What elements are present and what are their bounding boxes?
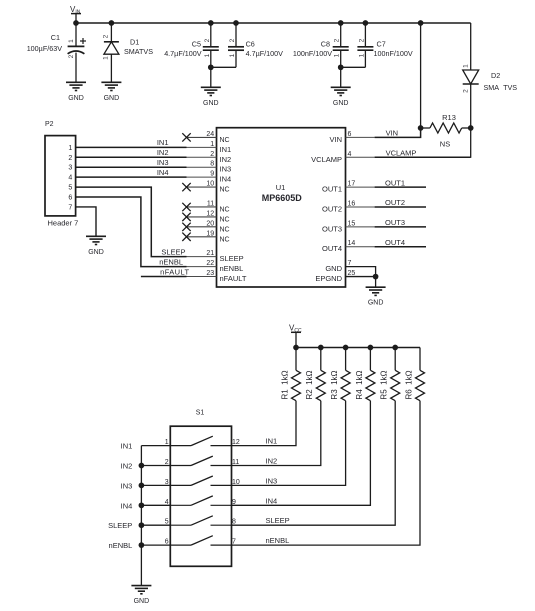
pin 11 NC (no connect) [182, 200, 229, 213]
op-amp / driver IC U1 MP6605D [217, 128, 346, 287]
svg-text:OUT2: OUT2 [322, 204, 342, 213]
svg-text:GND: GND [134, 598, 150, 605]
svg-text:OUT4: OUT4 [322, 244, 342, 253]
svg-text:2: 2 [210, 151, 214, 158]
junction C8/C7 bottom [338, 64, 344, 70]
svg-text:IN1: IN1 [266, 437, 278, 446]
svg-text:IN4: IN4 [157, 168, 169, 177]
svg-text:GND: GND [68, 95, 84, 102]
svg-text:IN4: IN4 [220, 175, 232, 184]
svg-text:IN2: IN2 [157, 148, 169, 157]
svg-text:IN3: IN3 [266, 476, 278, 485]
wire S1 pin 10 to R3 (IN3) [232, 401, 346, 486]
svg-text:21: 21 [206, 250, 214, 257]
svg-text:1: 1 [334, 53, 341, 57]
svg-text:2: 2 [204, 38, 211, 42]
svg-text:C8: C8 [321, 40, 330, 49]
svg-text:nFAULT: nFAULT [160, 267, 189, 276]
wire net SLEEP (P2.5 to U1.21) [76, 187, 187, 257]
svg-text:100nF/100V: 100nF/100V [293, 49, 332, 58]
svg-text:NC: NC [220, 216, 230, 223]
switch S1 element 6 (pins 6/7) [165, 536, 236, 546]
svg-text:24: 24 [206, 131, 214, 138]
wire S1 left pin 1 [141, 445, 170, 447]
wire U1.25 EPGND to node [346, 276, 376, 278]
svg-text:EPGND: EPGND [315, 274, 342, 283]
svg-text:GND: GND [325, 264, 342, 273]
svg-text:SLEEP: SLEEP [108, 521, 132, 530]
svg-text:GND: GND [104, 95, 120, 102]
junction VIN rail / C6 [233, 20, 239, 26]
svg-text:NC: NC [220, 187, 230, 194]
ground under C1 [66, 82, 86, 102]
junction VIN rail / C7 [363, 20, 369, 26]
svg-text:SMATVS: SMATVS [124, 47, 153, 56]
svg-text:1: 1 [68, 39, 75, 43]
diode D1 SMATVS [102, 23, 153, 82]
ground under U1 [366, 287, 386, 307]
junction VIN rail / drop to R13 [418, 20, 424, 26]
wire VIN rail [76, 22, 471, 24]
junction VCC rail / R2 [318, 345, 324, 351]
wire net IN1 (P2.1 to U1.1) [76, 146, 187, 148]
svg-text:VCLAMP: VCLAMP [386, 148, 417, 157]
svg-text:1: 1 [68, 145, 72, 152]
svg-text:IN3: IN3 [220, 165, 232, 174]
capacitor C6 4.7uF/100V [228, 23, 283, 67]
svg-text:IN2: IN2 [121, 462, 133, 471]
resistor R4 1kOhm [355, 348, 375, 401]
svg-text:C5: C5 [192, 40, 201, 49]
switch S1 (6x DIP) [170, 426, 231, 566]
svg-text:R1 1kΩ: R1 1kΩ [280, 370, 289, 399]
svg-text:NC: NC [220, 137, 230, 144]
svg-text:10: 10 [206, 181, 214, 188]
switch S1 element 3 (pins 3/10) [165, 476, 240, 486]
wire net OUT2 [346, 206, 375, 208]
wire VCC rail [296, 347, 420, 349]
svg-text:4: 4 [68, 175, 72, 182]
pin 19 NC (no connect) [182, 230, 229, 243]
wire net VCLAMP (U1.4 to D2/R13 node) [346, 156, 375, 158]
svg-text:R5 1kΩ: R5 1kΩ [380, 370, 389, 399]
wire node to ground [375, 277, 377, 288]
svg-text:2: 2 [358, 38, 365, 42]
wire input bus to ground [140, 446, 142, 586]
svg-text:D1: D1 [130, 38, 139, 47]
power flag VIN [70, 5, 81, 23]
svg-text:12: 12 [206, 210, 214, 217]
resistor R13 NS [421, 113, 471, 149]
svg-text:1: 1 [210, 141, 214, 148]
svg-text:Header 7: Header 7 [48, 219, 79, 228]
pin 12 NC (no connect) [182, 210, 229, 223]
power flag VCC [289, 324, 302, 348]
svg-text:6: 6 [68, 195, 72, 202]
svg-text:OUT4: OUT4 [385, 238, 405, 247]
svg-text:22: 22 [206, 260, 214, 267]
junction VIN rail / C1 [73, 20, 79, 26]
svg-text:19: 19 [206, 230, 214, 237]
wire U1.7 GND to node [346, 267, 376, 277]
svg-text:15: 15 [348, 220, 356, 227]
svg-text:1: 1 [204, 53, 211, 57]
resistor R2 1kOhm [305, 348, 325, 401]
svg-text:VIN: VIN [329, 135, 342, 144]
wire net IN2 (P2.2 to U1.2) [76, 156, 187, 158]
svg-text:IN3: IN3 [121, 481, 133, 490]
junction VIN rail / C5 [208, 20, 214, 26]
svg-text:SMA TVS: SMA TVS [484, 83, 518, 92]
junction bus row 3 [139, 483, 145, 489]
svg-text:GND: GND [368, 300, 384, 307]
junction C5/C6 bottom [208, 64, 214, 70]
wire net IN4 (P2.4 to U1.9) [76, 176, 187, 178]
switch S1 element 5 (pins 5/8) [165, 516, 236, 526]
svg-text:16: 16 [348, 200, 356, 207]
svg-text:2: 2 [102, 34, 109, 38]
svg-text:OUT1: OUT1 [322, 185, 342, 194]
wire net OUT4 [346, 246, 375, 248]
junction R13 left / VIN [418, 125, 424, 131]
switch S1 element 4 (pins 4/9) [165, 496, 236, 506]
svg-text:VCLAMP: VCLAMP [311, 155, 342, 164]
resistor R1 1kOhm [280, 348, 300, 401]
wire C6 to C5 bottom [211, 66, 236, 68]
svg-text:11: 11 [207, 200, 214, 207]
svg-text:8: 8 [210, 161, 214, 168]
junction VCC rail / R4 [368, 345, 374, 351]
junction VCC rail / R1 [293, 345, 299, 351]
svg-text:nENBL: nENBL [220, 264, 244, 273]
svg-text:2: 2 [334, 38, 341, 42]
svg-text:6: 6 [348, 131, 352, 138]
wire S1 pin 12 to R1 (IN1) [232, 401, 297, 446]
wire C8 bottom to ground [340, 67, 342, 87]
svg-text:IN4: IN4 [121, 501, 133, 510]
svg-text:100µF/63V: 100µF/63V [27, 44, 63, 53]
svg-text:100nF/100V: 100nF/100V [374, 49, 413, 58]
svg-text:NC: NC [220, 236, 230, 243]
svg-text:4.7µF/100V: 4.7µF/100V [246, 49, 284, 58]
svg-text:IN3: IN3 [157, 158, 169, 167]
wire net nENBL (P2.6 to U1.22) [76, 197, 187, 267]
svg-text:MP6605D: MP6605D [262, 193, 303, 203]
wire S1 pin 8 to R5 (SLEEP) [232, 401, 396, 526]
capacitor C7 100nF/100V [357, 23, 412, 67]
junction bus row 6 [139, 542, 145, 548]
svg-text:nENBL: nENBL [266, 536, 290, 545]
pin 20 NC (no connect) [182, 220, 229, 233]
svg-text:R2 1kΩ: R2 1kΩ [305, 370, 314, 399]
svg-text:IN2: IN2 [220, 155, 232, 164]
svg-text:C1: C1 [51, 33, 60, 42]
wire C7 to C8 bottom [341, 66, 366, 68]
wire S1 left pin 2 [141, 465, 170, 467]
switch S1 element 2 (pins 2/11) [165, 456, 240, 466]
resistor R5 1kOhm [380, 348, 400, 401]
svg-text:4.7µF/100V: 4.7µF/100V [164, 49, 202, 58]
resistor R3 1kOhm [330, 348, 350, 401]
connector P2 Header 7 [45, 136, 76, 216]
junction bus row 5 [139, 522, 145, 528]
svg-text:GND: GND [88, 249, 104, 256]
wire S1 pin 7 to R6 (nENBL) [232, 401, 421, 545]
svg-text:OUT3: OUT3 [322, 224, 342, 233]
svg-text:NC: NC [220, 206, 230, 213]
svg-text:R4 1kΩ: R4 1kΩ [355, 370, 364, 399]
capacitor C8 100nF/100V [293, 23, 349, 67]
svg-text:C7: C7 [377, 40, 386, 49]
svg-text:IN1: IN1 [157, 138, 169, 147]
svg-text:2: 2 [462, 89, 469, 93]
svg-text:2: 2 [68, 155, 72, 162]
svg-text:1: 1 [102, 56, 109, 60]
svg-text:1: 1 [462, 64, 469, 68]
svg-text:P2: P2 [45, 121, 54, 128]
svg-text:SLEEP: SLEEP [266, 516, 290, 525]
svg-text:D2: D2 [491, 71, 500, 80]
capacitor C1 100uF/63V [27, 23, 86, 82]
svg-text:nENBL: nENBL [159, 257, 183, 266]
svg-text:IN2: IN2 [266, 457, 278, 466]
svg-text:NS: NS [440, 140, 450, 149]
junction VCC rail / R5 [392, 345, 398, 351]
wire S1 pin 11 to R2 (IN2) [232, 401, 321, 466]
junction VCC rail / R3 [343, 345, 349, 351]
svg-text:OUT3: OUT3 [385, 218, 405, 227]
svg-text:7: 7 [68, 204, 72, 211]
ground under C5/C6 [201, 87, 221, 107]
svg-text:IN4: IN4 [266, 496, 278, 505]
svg-text:NC: NC [220, 226, 230, 233]
svg-text:OUT2: OUT2 [385, 198, 405, 207]
diode D2 SMA TVS [462, 64, 517, 93]
wire S1 pin 9 to R4 (IN4) [232, 401, 371, 506]
svg-text:1: 1 [358, 53, 365, 57]
svg-text:R3 1kΩ: R3 1kΩ [330, 370, 339, 399]
svg-text:nENBL: nENBL [109, 541, 133, 550]
svg-text:2: 2 [68, 54, 75, 58]
resistor R6 1kOhm [404, 348, 424, 401]
wire net OUT3 [346, 226, 375, 228]
junction GND/EPGND [373, 274, 379, 280]
svg-text:2: 2 [229, 38, 236, 42]
svg-text:R6 1kΩ: R6 1kΩ [404, 370, 413, 399]
capacitor C5 4.7uF/100V [164, 23, 219, 67]
wire rail corner down to D2 [470, 23, 472, 70]
svg-text:1: 1 [229, 53, 236, 57]
svg-text:23: 23 [206, 270, 214, 277]
svg-text:IN1: IN1 [121, 442, 133, 451]
wire S1 left pin 3 [141, 484, 170, 486]
svg-text:S1: S1 [196, 410, 205, 417]
wire S1 left pin 4 [141, 504, 170, 506]
svg-text:OUT1: OUT1 [385, 178, 405, 187]
svg-text:4: 4 [348, 151, 352, 158]
svg-text:17: 17 [348, 181, 356, 188]
wire C5 bottom to ground [210, 67, 212, 87]
junction VIN rail / C8 [338, 20, 344, 26]
junction VIN rail / D1 [109, 20, 115, 26]
svg-text:U1: U1 [276, 183, 286, 192]
svg-text:SLEEP: SLEEP [220, 254, 244, 263]
svg-text:GND: GND [203, 100, 219, 107]
svg-text:GND: GND [333, 100, 349, 107]
wire net VIN (U1.6 to R13) [346, 136, 375, 138]
pin 10 NC (no connect) [182, 181, 229, 194]
svg-text:14: 14 [348, 240, 356, 247]
svg-text:20: 20 [206, 220, 214, 227]
svg-text:R13: R13 [442, 113, 456, 122]
switch S1 element 1 (pins 1/12) [165, 436, 240, 446]
junction bus row 4 [139, 502, 145, 508]
svg-text:5: 5 [68, 185, 72, 192]
svg-text:9: 9 [210, 171, 214, 178]
wire net nFAULT (stub to U1.23) [141, 276, 187, 278]
svg-text:nFAULT: nFAULT [220, 274, 247, 283]
svg-text:VIN: VIN [386, 129, 399, 138]
svg-text:SLEEP: SLEEP [161, 247, 185, 256]
ground under C8/C7 [331, 87, 351, 107]
wire D2 cathode down to VCLAMP corner [470, 84, 472, 158]
svg-text:IN1: IN1 [220, 145, 232, 154]
svg-text:3: 3 [68, 165, 72, 172]
svg-text:C6: C6 [246, 40, 255, 49]
junction R13 right / D2 line [468, 125, 474, 131]
wire VIN drop to R13 left node [420, 23, 422, 128]
wire P2.7 to ground [76, 207, 96, 236]
junction bus row 2 [139, 463, 145, 469]
ground under D1 [101, 82, 121, 102]
ground under P2 [86, 236, 106, 256]
pin 24 NC (no connect) [182, 131, 229, 144]
wire net IN3 (P2.3 to U1.8) [76, 166, 187, 168]
wire S1 left pin 6 [141, 544, 170, 546]
wire net OUT1 [346, 186, 375, 188]
ground bottom [131, 586, 151, 606]
wire S1 left pin 5 [141, 524, 170, 526]
